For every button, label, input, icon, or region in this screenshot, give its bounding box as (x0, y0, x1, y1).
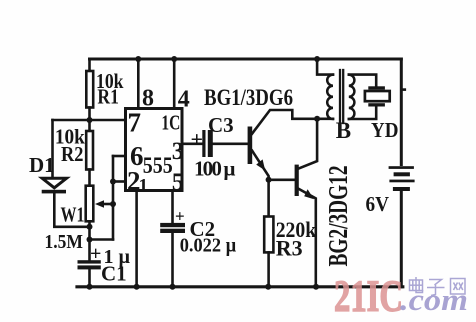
wire battery top lead (400, 59, 403, 165)
wire BG2 base lead (269, 179, 295, 182)
node pin4/rail (171, 56, 177, 62)
wire W1 wiper lead (100, 203, 113, 206)
battery GB 6V (389, 166, 414, 169)
wire pin5 lead lower (171, 233, 174, 287)
wire feedback bottom (90, 238, 114, 241)
svg-text:5: 5 (172, 169, 185, 196)
wiper arrowhead W1 (95, 200, 104, 208)
svg-text:+: + (90, 243, 101, 265)
svg-text:R2: R2 (61, 142, 84, 166)
wire secondary bottom to YD (349, 107, 376, 120)
svg-text:B: B (336, 118, 351, 143)
resistor R2 (86, 131, 93, 170)
wire D1 cathode to W1 bottom (54, 193, 89, 226)
arrowhead BG1 emitter (256, 159, 265, 170)
svg-text:C1: C1 (101, 262, 127, 286)
node C1/rail (87, 284, 93, 290)
transistor Q1 BG1 base bar (248, 127, 253, 165)
svg-text:W1: W1 (61, 203, 85, 227)
capacitor C1 (78, 260, 101, 263)
svg-text:21IC: 21IC (334, 272, 403, 321)
tick mark near battery line (402, 88, 407, 91)
watermark dianziwang glyphs (410, 277, 466, 296)
svg-text:BG2/3DG12: BG2/3DG12 (323, 166, 353, 267)
wire pin6 stub (113, 155, 126, 158)
node pin2 junction (110, 179, 116, 185)
svg-text:1C: 1C (161, 111, 180, 135)
wire pin1 lead (135, 191, 138, 287)
svg-text:D1: D1 (29, 153, 55, 177)
transistor Q2 BG2 base bar (295, 165, 299, 196)
svg-text:+: + (175, 207, 185, 226)
node R3/rail (265, 284, 271, 290)
piezo sounder YD (368, 86, 385, 89)
svg-text:YD: YD (371, 118, 399, 142)
svg-text:7: 7 (128, 108, 142, 138)
transformer B secondary winding (349, 75, 355, 119)
node W1/feedback junction (87, 237, 93, 243)
svg-text:8: 8 (142, 86, 154, 112)
node pin5/rail (170, 284, 176, 290)
wire pins 2-6 vertical (112, 156, 115, 240)
svg-text:3: 3 (172, 138, 185, 165)
svg-text:1: 1 (139, 176, 149, 197)
node wiper junction (110, 201, 116, 207)
wire C1 bottom lead (88, 269, 91, 286)
node BG1 emitter/R3/BG2 base (266, 177, 272, 183)
node primary/rail (314, 56, 320, 62)
wire pin4 lead (173, 59, 176, 109)
arrowhead BG2 emitter (304, 189, 314, 199)
watermark glyph dian (410, 277, 423, 293)
transformer B core (339, 70, 341, 123)
wire R3 top lead (267, 180, 270, 217)
node BG2 emitter/rail (313, 284, 319, 290)
capacitor C2 (160, 223, 185, 227)
wire BG1 collector (252, 110, 333, 134)
op-amp U1 555 IC box (126, 109, 183, 191)
wire R1 top lead (88, 59, 91, 71)
svg-text:1.5M: 1.5M (45, 231, 84, 253)
svg-text:555: 555 (143, 153, 173, 178)
wire bottom ground rail (77, 285, 403, 288)
watermark glyph zi (427, 280, 445, 296)
wire R2 top lead (88, 120, 91, 131)
potentiometer W1 (86, 186, 94, 222)
wire BG1 emitter (252, 151, 269, 180)
svg-text:C3: C3 (208, 113, 234, 137)
node pin1/rail (134, 284, 140, 290)
wire pin3 stub (182, 143, 202, 146)
wire C3 to BG1 base (213, 143, 248, 146)
svg-text:R3: R3 (276, 236, 303, 261)
node R1/R2/D1 junction (87, 117, 93, 123)
svg-text:100 µ: 100 µ (194, 157, 236, 181)
resistor R1 (86, 71, 93, 108)
wire R2 to W1 (88, 170, 91, 186)
wire pin8 lead (137, 59, 140, 109)
svg-text:4: 4 (178, 87, 190, 113)
svg-text:BG1/3DG6: BG1/3DG6 (204, 85, 293, 110)
capacitor C3 (202, 130, 205, 157)
svg-text:6V: 6V (366, 192, 390, 216)
wire node pin7 horizontal (53, 119, 126, 122)
transformer B primary winding (327, 75, 333, 119)
watermark glyph wang (451, 279, 466, 295)
wire D1 anode lead (51, 120, 54, 178)
wire pin5 lead upper (171, 191, 174, 223)
wire BG2 collector (299, 119, 318, 169)
diode D1 (42, 178, 66, 188)
wire R3 bottom lead (267, 252, 270, 286)
node pin8/rail (135, 56, 141, 62)
wire BG2 emitter (299, 189, 316, 287)
node collector/transformer junction (314, 116, 320, 122)
wire secondary top to YD (349, 75, 376, 87)
svg-text:+: + (191, 127, 204, 152)
wire top supply rail (90, 58, 402, 61)
svg-text:0.022 µ: 0.022 µ (180, 235, 237, 257)
wire pin2 stub (113, 180, 126, 183)
wire transformer primary top lead (317, 59, 333, 75)
svg-text:R1: R1 (97, 85, 119, 109)
wire R1 bottom lead (88, 108, 91, 121)
wire battery bottom lead (400, 191, 403, 287)
node W1/D1 junction (87, 224, 93, 230)
wire W1 bottom to C1 (88, 221, 91, 260)
resistor R3 (264, 217, 273, 253)
